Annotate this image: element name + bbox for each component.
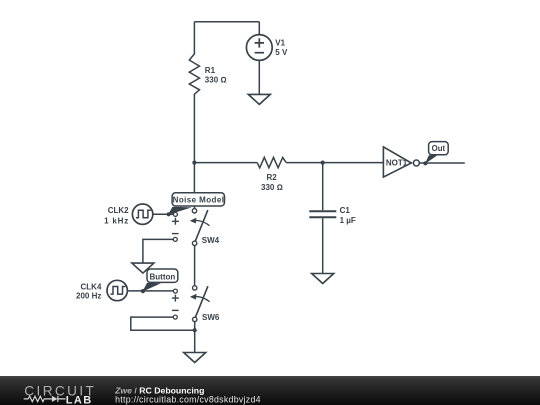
node Button box bbox=[147, 269, 178, 282]
wire SW4 to SW6 bbox=[194, 246, 196, 286]
voltage source V1 bbox=[246, 35, 272, 61]
label CLK2 value bbox=[104, 206, 129, 226]
wire SW6 control - to bottom node bbox=[131, 317, 195, 330]
svg-text:LAB: LAB bbox=[66, 394, 93, 405]
svg-text:R2: R2 bbox=[266, 173, 277, 182]
pin SW6 control + bbox=[172, 289, 179, 302]
op-amp U1 : inverter NOT1 bbox=[383, 147, 419, 177]
svg-text:1 µF: 1 µF bbox=[340, 216, 356, 225]
node junction CLK2 wire bbox=[167, 212, 171, 216]
wire Out flag tap bbox=[425, 155, 437, 164]
pin SW4 control + bbox=[172, 212, 179, 224]
node junction rail/C1 bbox=[321, 161, 325, 165]
wire SW6 bottom to ground bbox=[194, 322, 196, 353]
svg-text:V1: V1 bbox=[275, 38, 285, 47]
svg-text:NOT1: NOT1 bbox=[386, 159, 408, 168]
resistor R2 bbox=[257, 157, 286, 167]
svg-text:Button: Button bbox=[150, 272, 176, 281]
footer bar bbox=[0, 376, 540, 405]
label CLK4 value bbox=[76, 283, 102, 301]
transistor Q1 : switch SW4 bbox=[190, 206, 220, 246]
wire SW4 control - to ground bbox=[143, 239, 173, 263]
svg-text:SW6: SW6 bbox=[202, 313, 220, 322]
wire NOT1 output bbox=[420, 162, 465, 164]
node junction output/Out flag bbox=[423, 161, 427, 165]
svg-text:330 Ω: 330 Ω bbox=[205, 75, 227, 84]
wire tap to Button pin bbox=[142, 283, 161, 292]
wire mid rail right bbox=[286, 162, 383, 164]
wire C1 top stub bbox=[322, 163, 324, 211]
svg-text:1 kHz: 1 kHz bbox=[104, 217, 129, 226]
resistor R1 bbox=[189, 22, 199, 163]
wire rail to Noise Model bbox=[193, 163, 195, 193]
svg-text:CLK4: CLK4 bbox=[81, 283, 102, 292]
node Noise Model box bbox=[172, 193, 224, 206]
svg-text:5 V: 5 V bbox=[275, 48, 288, 57]
svg-text:CLK2: CLK2 bbox=[108, 206, 129, 215]
transistor Q2 : switch SW6 bbox=[190, 286, 220, 322]
node junction bottom bbox=[193, 328, 197, 332]
wire CLK4 to SW6 control bbox=[127, 290, 173, 292]
svg-text:Noise Model: Noise Model bbox=[173, 195, 225, 204]
pin SW4 control - bbox=[172, 234, 179, 242]
label V1 value bbox=[275, 38, 288, 57]
svg-text:SW4: SW4 bbox=[202, 236, 220, 245]
svg-text:C1: C1 bbox=[340, 206, 351, 215]
footer logo diode bbox=[52, 396, 58, 402]
node Out flag bbox=[429, 142, 449, 155]
footer logo wave bbox=[24, 396, 66, 402]
ground under SW6 bbox=[184, 353, 206, 363]
ground under SW4 control bbox=[132, 263, 154, 273]
wire V1 top stub bbox=[258, 22, 260, 35]
svg-text:R1: R1 bbox=[205, 66, 216, 75]
clock source CLK2 bbox=[132, 204, 152, 224]
node junction CLK4 wire bbox=[141, 289, 145, 293]
capacitor C1 bbox=[309, 211, 336, 217]
svg-text:http://circuitlab.com/cv8dskdb: http://circuitlab.com/cv8dskdbvjzd4 bbox=[115, 394, 261, 404]
wire top rail bbox=[194, 21, 259, 23]
pin SW6 control - bbox=[172, 310, 179, 319]
svg-text:200 Hz: 200 Hz bbox=[76, 292, 101, 301]
clock source CLK4 bbox=[107, 280, 127, 300]
ground under C1 bbox=[312, 274, 334, 284]
svg-text:330 Ω: 330 Ω bbox=[261, 183, 283, 192]
wire C1 bottom stub bbox=[322, 218, 324, 273]
wire V1 bottom bbox=[258, 60, 260, 94]
svg-text:Out: Out bbox=[432, 144, 446, 153]
wire tap to Noise Model pin bbox=[168, 207, 192, 215]
node junction rail/R1 bbox=[192, 161, 196, 165]
wire CLK2 to SW4 control bbox=[153, 213, 174, 215]
label C1 value bbox=[340, 206, 356, 225]
ground under V1 bbox=[248, 94, 270, 104]
label R1 value bbox=[205, 66, 227, 85]
label R2 value bbox=[261, 173, 283, 192]
wire mid rail left bbox=[194, 162, 257, 164]
